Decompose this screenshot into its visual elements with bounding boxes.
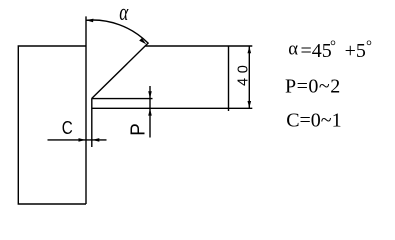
svg-text:α: α <box>119 0 128 26</box>
right plate root face (left vertical edge, extended down) <box>91 98 93 147</box>
left plate right face (vertical line, also angle extension) <box>85 16 87 204</box>
svg-text:α: α <box>288 39 298 59</box>
arrow arc left end (points left onto vertical line) <box>86 19 93 23</box>
svg-text:P: P <box>126 123 149 136</box>
svg-text:°: ° <box>366 39 372 55</box>
angle dimension arc alpha <box>86 20 148 43</box>
dimension line P <box>149 86 151 138</box>
dimension line 40 <box>248 46 250 108</box>
arrow 40 bottom (points down) <box>248 101 252 108</box>
bevel face <box>92 43 149 99</box>
svg-text:+5: +5 <box>345 40 366 62</box>
svg-text:=45: =45 <box>301 40 332 62</box>
arrow P lower (points up to bottom line) <box>148 109 152 116</box>
svg-text:C: C <box>62 117 73 138</box>
right plate top surface with dimension extension <box>146 45 253 47</box>
arrow C left (points right) <box>79 138 86 142</box>
arrow C right (points left) <box>92 138 99 142</box>
svg-text:°: ° <box>330 39 336 55</box>
svg-text:C=0~1: C=0~1 <box>286 110 341 132</box>
right plate bottom with dimension extension <box>92 107 253 109</box>
arrow P upper (points down to root line) <box>148 91 152 98</box>
root face extension line (for P dimension) <box>92 98 153 100</box>
left plate outline <box>18 46 86 204</box>
svg-text:P=0~2: P=0~2 <box>285 76 341 98</box>
right plate right edge <box>228 46 230 111</box>
dimension line C <box>48 139 107 141</box>
arrow 40 top (points up) <box>248 46 252 53</box>
arrow arc right end (points down-right to bevel tip) <box>139 38 146 44</box>
svg-text:40: 40 <box>235 61 251 86</box>
